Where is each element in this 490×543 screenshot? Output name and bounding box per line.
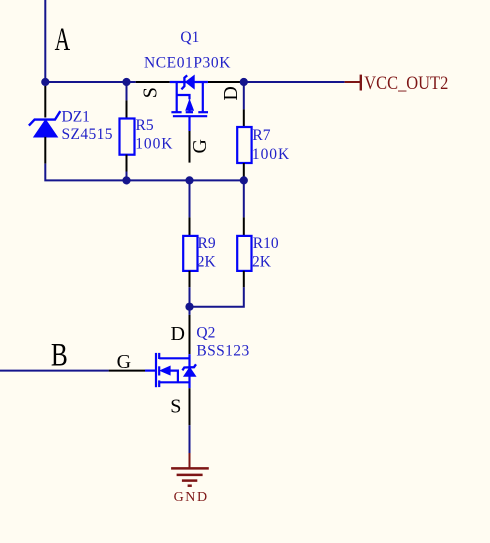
resistor R5 xyxy=(120,82,135,180)
svg-text:A: A xyxy=(55,21,71,58)
Q1 gate lead blue part xyxy=(188,116,190,131)
R5 bottom wire stub xyxy=(126,172,128,181)
DZ1 zener bar with ticks xyxy=(29,111,60,126)
Q2 channel bar segment top xyxy=(158,353,160,359)
junction at Q1 gate / R9 xyxy=(185,176,193,184)
Q1 bulk arrow xyxy=(186,100,194,110)
GND bar 1 xyxy=(171,467,209,470)
svg-text:DZ1: DZ1 xyxy=(62,108,90,125)
svg-text:2K: 2K xyxy=(252,253,272,270)
R5 bottom pin (black) xyxy=(126,155,128,172)
wire Q1 drain to VCC port xyxy=(240,81,345,83)
R10 body rectangle xyxy=(237,236,251,271)
svg-text:GND: GND xyxy=(174,490,208,505)
junction at node A corner xyxy=(41,78,49,86)
R9 bottom wire stub xyxy=(189,287,191,306)
R10 top pin (black) xyxy=(243,217,245,236)
R10 top wire stub xyxy=(243,180,245,217)
wire net B horizontal xyxy=(0,370,109,372)
GND bar 3 xyxy=(182,479,197,482)
R9 body rectangle xyxy=(183,236,197,271)
Q1 pin S (black lead) xyxy=(136,81,170,83)
Q1 body top bar xyxy=(170,81,208,83)
svg-text:100K: 100K xyxy=(135,136,173,153)
R9 bottom pin (black) xyxy=(189,271,191,288)
Q1 channel bar segment 3 xyxy=(198,111,208,113)
svg-text:BSS123: BSS123 xyxy=(196,343,249,360)
resistor R10 xyxy=(237,180,251,287)
R5 top wire stub xyxy=(126,82,128,100)
Q1 channel bar segment 2 xyxy=(186,111,193,113)
svg-text:D: D xyxy=(220,86,242,100)
Q2 top (drain) connect xyxy=(159,357,189,359)
DZ1 bottom pin (black) xyxy=(44,137,46,164)
Q2 gate plate xyxy=(155,353,157,387)
Q2 pin D (black lead) xyxy=(189,315,191,354)
Q1 gate plate xyxy=(173,115,207,117)
svg-text:100K: 100K xyxy=(252,146,290,163)
junction at R5 top xyxy=(122,78,130,86)
Q1 right (drain) stub xyxy=(202,82,204,112)
svg-text:R5: R5 xyxy=(136,117,154,134)
svg-text:Q1: Q1 xyxy=(180,29,199,46)
R5 body rectangle xyxy=(120,119,135,155)
GND stem xyxy=(189,453,191,468)
svg-text:S: S xyxy=(140,87,162,98)
wire Q2 source to GND xyxy=(189,425,191,453)
Q2 body diode zener bar xyxy=(182,364,196,370)
R7 top pin (black) xyxy=(243,109,245,127)
junction at R5 bottom xyxy=(122,176,130,184)
Q1 left (source) stub xyxy=(176,82,178,112)
Q2 gate lead blue part xyxy=(145,370,156,372)
Q2 channel bar segment bottom xyxy=(158,380,160,387)
Q2 channel bar segment middle xyxy=(158,366,160,375)
R7 top wire stub xyxy=(243,82,245,109)
GND bar 4 xyxy=(188,484,192,487)
svg-text:S: S xyxy=(170,396,181,418)
resistor R7 xyxy=(237,82,251,180)
wire junction to Q2 drain pin xyxy=(189,307,191,315)
R7 bottom pin (black) xyxy=(243,163,245,180)
Q1 bulk arrow stem xyxy=(188,110,190,112)
svg-text:VCC_OUT2: VCC_OUT2 xyxy=(364,73,448,94)
junction at R7 bottom / R10 xyxy=(240,176,248,184)
svg-text:B: B xyxy=(51,337,68,373)
svg-text:Q2: Q2 xyxy=(196,324,215,341)
transistor Q2 xyxy=(109,315,196,425)
DZ1 triangle xyxy=(34,120,58,137)
junction at Q1 drain / R7 / VCC xyxy=(240,78,248,86)
DZ1 top pin (black) xyxy=(44,86,46,118)
Q1 body diode zener bar xyxy=(181,75,187,89)
VCC_OUT2 bar xyxy=(360,75,362,91)
Q2 body connection with corner xyxy=(170,371,178,383)
VCC_OUT2 stem xyxy=(345,81,361,83)
wire net A vertical xyxy=(44,0,46,82)
Q1 body connection line xyxy=(177,95,190,99)
wire middle rail (DZ1 to R7 bottom) xyxy=(45,164,244,181)
Q1 pin G (black lead) xyxy=(189,131,191,163)
Q2 pin G (black lead) xyxy=(109,370,145,372)
junction at R9 bottom / Q2 drain xyxy=(185,303,193,311)
Q2 bottom (source) connect xyxy=(159,381,189,383)
resistor R9 xyxy=(183,180,197,306)
GND bar 2 xyxy=(177,474,203,477)
Q2 bulk arrow xyxy=(160,366,170,375)
svg-text:G: G xyxy=(189,139,211,153)
svg-text:R10: R10 xyxy=(253,235,279,252)
wire top rail from A to Q1 source pin xyxy=(45,81,135,83)
svg-text:2K: 2K xyxy=(197,253,217,270)
wire R10 bottom to R9 bottom xyxy=(190,287,244,306)
Q2 drain-source vertical bar xyxy=(188,354,190,388)
Q1 pin D (black lead) xyxy=(208,81,240,83)
R7 body rectangle xyxy=(237,127,251,163)
transistor Q1 xyxy=(136,75,240,162)
R9 top pin (black) xyxy=(189,217,191,236)
svg-text:NCE01P30K: NCE01P30K xyxy=(144,55,231,72)
Q2 pin S (black lead) xyxy=(189,388,191,425)
power port VCC_OUT2 xyxy=(345,73,449,94)
R10 bottom pin (black) xyxy=(243,271,245,288)
svg-text:R9: R9 xyxy=(198,235,216,252)
power port GND xyxy=(171,453,209,505)
Q1 body diode triangle xyxy=(186,76,195,89)
Q1 channel bar segment 1 xyxy=(171,111,181,113)
svg-text:D: D xyxy=(171,323,185,345)
svg-text:SZ4515: SZ4515 xyxy=(62,126,113,143)
Q2 body diode triangle xyxy=(184,368,196,377)
zener diode DZ1 xyxy=(29,86,60,164)
svg-text:G: G xyxy=(117,351,131,373)
svg-text:R7: R7 xyxy=(252,127,270,144)
R9 top wire stub xyxy=(189,180,191,217)
R5 top pin (black) xyxy=(126,100,128,118)
